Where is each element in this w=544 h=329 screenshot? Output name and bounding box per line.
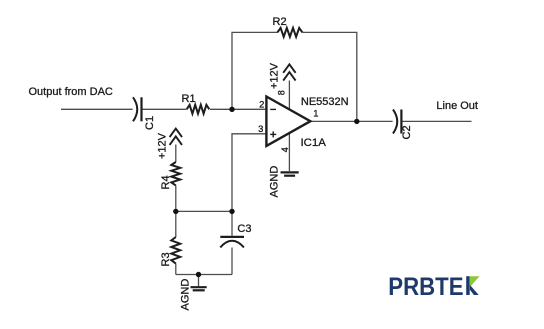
svg-text:4: 4 (280, 147, 290, 152)
svg-text:PRBTE: PRBTE (388, 273, 463, 301)
svg-text:Line Out: Line Out (436, 100, 478, 112)
svg-text:3: 3 (258, 123, 263, 134)
svg-text:R1: R1 (182, 93, 196, 105)
svg-text:AGND: AGND (269, 166, 281, 198)
svg-text:C2: C2 (401, 125, 413, 139)
svg-text:AGND: AGND (179, 279, 191, 311)
svg-text:NE5532N: NE5532N (301, 96, 349, 108)
svg-text:2: 2 (259, 99, 264, 110)
svg-text:R2: R2 (273, 16, 287, 28)
svg-text:C3: C3 (237, 223, 251, 235)
svg-text:+12V: +12V (156, 132, 168, 159)
svg-text:Output from DAC: Output from DAC (29, 86, 113, 98)
svg-text:IC1A: IC1A (301, 137, 327, 149)
svg-text:C1: C1 (144, 116, 156, 130)
svg-text:R4: R4 (160, 175, 172, 189)
svg-text:8: 8 (277, 90, 287, 95)
svg-text:+12V: +12V (268, 62, 280, 89)
svg-text:R3: R3 (160, 252, 172, 266)
svg-text:1: 1 (313, 108, 318, 119)
